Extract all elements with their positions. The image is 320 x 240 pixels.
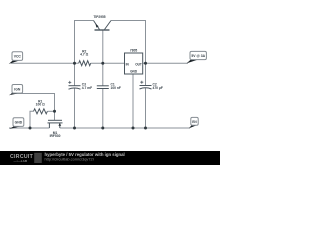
footer bar: [0, 151, 220, 165]
wire base / C1 branch: [102, 30, 104, 128]
label 7805: [130, 48, 138, 52]
wire VCC rail right of R2 to 7805 IN: [91, 62, 125, 64]
capacitor C1: [97, 86, 109, 89]
svg-text:5V @ 3A: 5V @ 3A: [191, 54, 205, 58]
label R1 value: [38, 100, 42, 104]
node flag EN: [189, 117, 198, 128]
wire bottom GND rail left: [9, 127, 49, 129]
CircuitLab logo: [10, 154, 34, 160]
wire output rail: [143, 62, 188, 64]
svg-text:100 nF: 100 nF: [111, 86, 121, 90]
svg-text:http://circuitlab.com/c/3qv72r: http://circuitlab.com/c/3qv72r: [45, 158, 95, 162]
capacitor C2: [140, 86, 152, 90]
capacitor C3: [69, 86, 81, 90]
svg-text:IGN: IGN: [14, 87, 21, 91]
svg-text:7805: 7805: [130, 48, 138, 52]
svg-text:TIP2955: TIP2955: [93, 15, 105, 19]
svg-text:EN: EN: [192, 120, 197, 124]
label M1 value: [53, 131, 58, 135]
svg-text:4.7 Ω: 4.7 Ω: [80, 53, 88, 57]
svg-text:OUT: OUT: [135, 63, 142, 67]
svg-text:4.7 mF: 4.7 mF: [82, 86, 92, 90]
transistor M1 IRF530: [48, 120, 63, 128]
wire top rail collector side: [111, 21, 146, 64]
node flag VCC: [9, 52, 23, 64]
svg-text:100 Ω: 100 Ω: [36, 103, 45, 107]
label C2 value: [153, 83, 157, 87]
pin label IN: [126, 63, 130, 67]
node flag 5V @ 3A: [187, 51, 207, 63]
svg-text:VCC: VCC: [14, 55, 22, 59]
wire top rail emitter side: [75, 21, 94, 64]
label C1 value: [111, 83, 115, 87]
wire IGN: [11, 94, 55, 112]
svg-text:GND: GND: [15, 121, 23, 125]
svg-text:hyperbyte / 5V regulator with: hyperbyte / 5V regulator with ign signal: [45, 152, 125, 157]
wire 7805 GND pin: [132, 74, 134, 128]
label TIP2955: [93, 15, 105, 19]
svg-text:470 µF: 470 µF: [153, 86, 163, 90]
pin label GND: [130, 70, 138, 74]
wire VCC rail left: [11, 62, 79, 64]
wire R1 right to gate node: [48, 110, 55, 112]
node flag IGN: [9, 85, 23, 96]
wire bottom rail right of M1: [60, 127, 190, 129]
wire C3 branch: [74, 63, 76, 128]
node flag GND: [9, 118, 23, 129]
wire gate lead: [54, 111, 56, 120]
label C3 value: [82, 83, 86, 87]
text labels (scaled for crispness): [14, 15, 206, 138]
wire C2 branch: [145, 63, 147, 128]
resistor R1: [34, 109, 48, 114]
pin label OUT: [135, 63, 142, 67]
junction node dots: [29, 62, 148, 130]
label R2 value: [82, 50, 86, 54]
svg-text:—▪—LAB: —▪—LAB: [14, 159, 28, 163]
svg-text:GND: GND: [130, 70, 138, 74]
transistor Q1 TIP2955: [94, 21, 112, 31]
wire R1 left to GND rail: [30, 111, 34, 128]
svg-text:IRF530: IRF530: [50, 134, 61, 138]
op-amp U1 7805 box: [125, 53, 143, 74]
resistor R2: [79, 61, 91, 66]
footer credit text: [45, 152, 125, 157]
